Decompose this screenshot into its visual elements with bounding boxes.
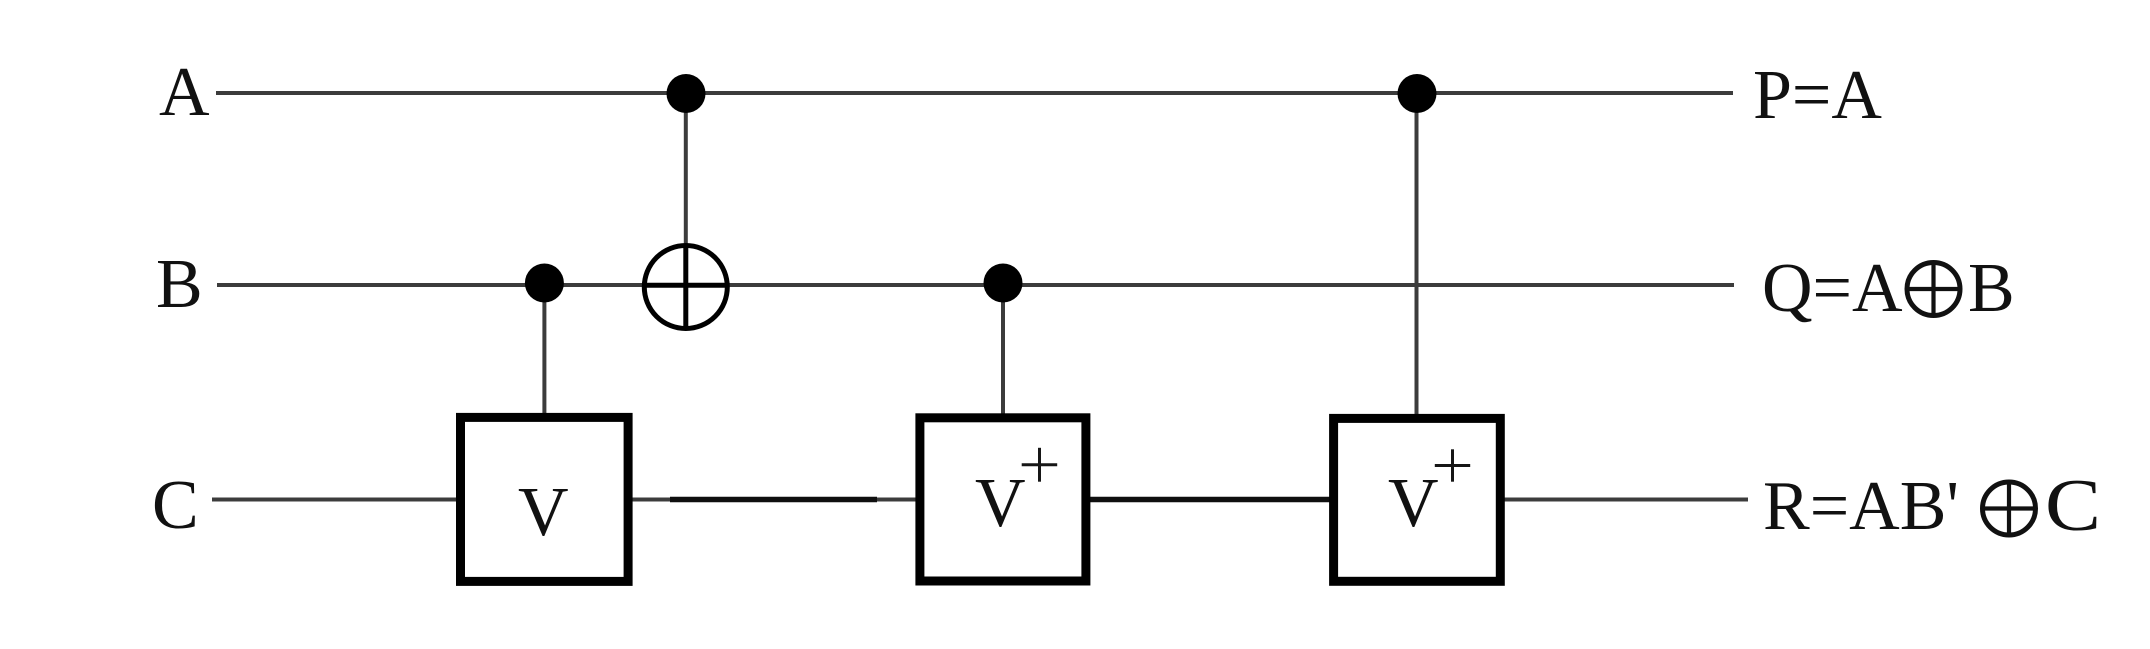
wire C right segment — [1503, 498, 1748, 502]
wire: control line from B to first V+ box — [1001, 283, 1005, 414]
wire: control line from B to V box — [542, 283, 546, 414]
superscript plus of U3 — [1435, 449, 1470, 481]
svg-text:V: V — [975, 465, 1026, 542]
svg-text:V: V — [518, 474, 569, 551]
control dot on B (controls V+) — [984, 264, 1023, 303]
control dot on A (controls V+) — [1398, 74, 1437, 113]
svg-text:B: B — [1968, 250, 2015, 327]
gate box V (controlled-V U1) — [461, 417, 629, 581]
svg-text:B: B — [156, 246, 203, 323]
wire C between V+ and V+ (thick) — [1088, 497, 1331, 503]
svg-text:Q=A: Q=A — [1762, 250, 1903, 327]
control dot on A (CNOT control) — [667, 74, 706, 113]
svg-text:V: V — [1388, 465, 1439, 542]
xor symbol in R label — [1983, 482, 2036, 535]
wire C between V and V+ (thick overlay) — [670, 497, 877, 503]
svg-text:R=AB': R=AB' — [1763, 468, 1959, 545]
wire C left segment — [212, 498, 458, 502]
svg-text:A: A — [159, 54, 210, 131]
gate box V+ (controlled-V-dagger U3) — [1334, 418, 1501, 581]
wire C between V and V+ (thin) — [630, 498, 917, 502]
xor symbol in Q label — [1907, 263, 1960, 316]
svg-text:C: C — [152, 467, 199, 544]
superscript plus of U2 — [1022, 448, 1057, 482]
wire B — [217, 283, 1734, 287]
wire A — [216, 91, 1733, 95]
gate box V+ (controlled-V-dagger U2) — [920, 418, 1086, 581]
XOR target (CNOT) on B — [644, 246, 727, 329]
wire: control line from A to CNOT target — [684, 93, 688, 248]
wire: control line from A to second V+ box — [1415, 93, 1419, 415]
svg-text:P=A: P=A — [1753, 57, 1882, 134]
control dot on B (controls V) — [525, 264, 564, 303]
svg-text:C: C — [2045, 465, 2101, 547]
